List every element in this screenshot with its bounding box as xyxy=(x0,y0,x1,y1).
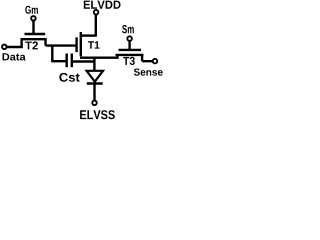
label T1 xyxy=(88,41,100,48)
transistor T3 channel xyxy=(116,54,144,56)
label Sm xyxy=(122,25,134,33)
terminal ELVSS xyxy=(92,101,97,106)
transistor T2 channel xyxy=(21,38,47,40)
wire Data xyxy=(7,46,23,48)
wire Sm gate lead xyxy=(128,41,130,50)
label ELVDD xyxy=(84,1,121,9)
terminal Sense xyxy=(153,59,158,64)
wire node vertical xyxy=(93,57,95,70)
wire T3 drain stub xyxy=(141,54,143,61)
wire Cst left xyxy=(51,60,65,62)
transistor T2 gate bar xyxy=(25,33,46,35)
wire Gm gate lead xyxy=(32,21,34,35)
transistor T3 gate bar xyxy=(119,49,142,51)
label T2 xyxy=(25,41,38,49)
label Sense xyxy=(134,69,163,76)
terminal Sm xyxy=(127,36,132,41)
wire Sense xyxy=(142,60,153,62)
capacitor Cst left plate xyxy=(65,54,67,68)
diode OLED xyxy=(87,71,103,82)
label T3 xyxy=(123,57,135,65)
diode OLED cathode bar xyxy=(87,82,103,84)
label Cst xyxy=(59,73,79,82)
label Data xyxy=(3,53,26,60)
wire T1 source xyxy=(80,57,94,59)
wire Cst right xyxy=(73,60,95,62)
capacitor Cst right plate xyxy=(71,54,73,68)
wire ELVDD lead xyxy=(95,15,97,37)
terminal ELVDD xyxy=(94,10,99,15)
transistor T1 channel xyxy=(80,32,82,56)
wire T2 source stub xyxy=(20,38,22,48)
label ELVSS xyxy=(80,110,115,119)
terminal Data xyxy=(2,45,7,50)
transistor T1 gate bar xyxy=(75,37,77,52)
wire T2 to T1 gate xyxy=(46,44,77,46)
terminal Gm xyxy=(31,16,36,21)
wire T1 drain xyxy=(80,34,96,36)
wire Cst drop xyxy=(51,45,53,62)
wire node to T3 xyxy=(94,57,118,59)
label Gm xyxy=(25,6,38,14)
wire ELVSS lead xyxy=(93,85,95,101)
wire T2 drain stub xyxy=(44,38,46,45)
wire T3 source stub xyxy=(116,54,118,59)
